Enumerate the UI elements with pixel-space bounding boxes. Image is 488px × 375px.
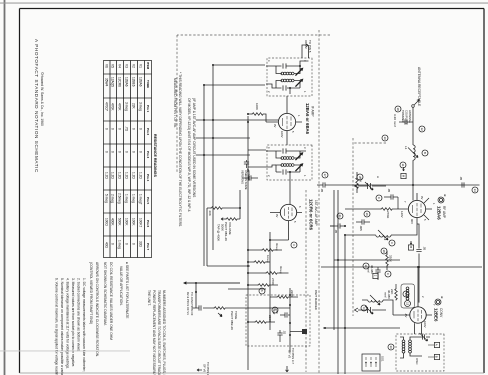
svg-text:100K: 100K [125,218,129,226]
svg-text:3: 3 [303,147,307,149]
svg-text:9: 9 [386,273,390,275]
label V3 [305,103,315,135]
svg-text:NOT SHOWN ON SCHEMATIC DIA: NOT SHOWN ON SCHEMATIC DIAGRAM. [103,262,107,326]
svg-text:TUBE: TUBE [146,80,150,88]
resistor R3 AVC [356,172,363,193]
svg-text:12BE6: 12BE6 [132,77,136,87]
svg-text:L2: L2 [383,237,387,241]
svg-text:(IF AMP & 1ST AVC-AF AMP CIRCU: (IF AMP & 1ST AVC-AF AMP CIRCUIT USED IN… [192,98,196,198]
svg-text:5: 5 [291,131,295,133]
volume control loop wires [207,190,240,266]
IF transformer T1 dashed box [266,45,312,96]
svg-text:(CONTROL VIEWED FROM SHAFT: (CONTROL VIEWED FROM SHAFT END) [89,262,93,324]
ref circle B [422,150,428,156]
svg-text:35W4: 35W4 [104,78,108,87]
svg-text:220K: 220K [290,290,294,297]
svg-text:1: 1 [303,91,307,93]
resistance readings table [104,61,158,258]
scan edge artifacts [4,0,6,375]
svg-text:100V: 100V [280,131,284,138]
svg-text:220: 220 [275,309,279,314]
svg-text:V1: V1 [139,64,143,68]
svg-text:40Ω: 40Ω [104,242,108,249]
svg-text:Pin 5: Pin 5 [146,197,150,205]
T2 secondary cap loop [276,165,300,175]
svg-text:0V: 0V [275,214,279,218]
svg-text:12BE6: 12BE6 [434,308,439,322]
circled refs det area [291,242,297,248]
svg-text:NUMBERS ASSIGNED TO COILS, SWI: NUMBERS ASSIGNED TO COILS, SWITCHES, PLU… [162,290,166,375]
svg-text:.005: .005 [359,225,363,231]
svg-text:100Ω: 100Ω [104,218,108,226]
svg-text:B: B [409,246,413,248]
svg-text:2 meg: 2 meg [111,194,115,203]
AF takeoff wiring [184,282,240,308]
solder pad [302,329,307,334]
right text column: numbers-assigned paragraph [147,290,166,375]
svg-text:⊕: ⊕ [443,194,447,197]
svg-text:.7Ω: .7Ω [125,126,129,132]
terminal B [434,354,439,359]
svg-text:2: 2 [421,296,425,298]
svg-text:11: 11 [401,164,405,167]
svg-text:SO1: SO1 [381,356,385,362]
svg-text:3meg: 3meg [275,243,279,251]
T2 bottom leads long [196,138,266,167]
svg-text:V3: V3 [125,64,129,68]
svg-text:PHOT #B2-49: PHOT #B2-49 [230,311,234,330]
svg-text:5 meg: 5 meg [104,194,108,203]
svg-text:270Ω: 270Ω [386,211,390,219]
svg-text:13: 13 [404,293,408,297]
to junction note [186,292,194,316]
svg-text:6: 6 [260,290,264,292]
svg-text:Pin 3: Pin 3 [146,151,150,159]
svg-text:0: 0 [132,128,136,130]
svg-text:OF V6: OF V6 [202,364,206,373]
heater rail wire [334,259,400,261]
resistor R9 [277,296,289,299]
numbered measurement notes [55,278,87,375]
power take-off module [362,354,385,371]
svg-text:1 meg†: 1 meg† [139,194,143,205]
tube V2 CONV 12BE6 [393,295,436,334]
svg-text:Pin 4: Pin 4 [146,174,150,182]
svg-text:500K: 500K [118,218,122,226]
svg-text:33Ω: 33Ω [139,241,143,248]
svg-text:0: 0 [139,151,143,153]
osc feedback coil in can [401,284,415,308]
svg-text:220K: 220K [268,315,272,322]
svg-text:.05: .05 [459,176,463,181]
svg-text:0: 0 [104,128,108,130]
svg-text:1: 1 [432,203,436,205]
V3 cathode resistor 100K [248,103,266,122]
misc circled refs top section [382,135,388,141]
AF network dashed sub-box [246,288,310,352]
svg-text:0: 0 [118,128,122,130]
resistor R8 [258,284,270,287]
svg-text:L1: L1 [404,146,408,150]
svg-text:14: 14 [473,189,477,193]
wire coil to RF grid [412,160,414,200]
osc grid capacitor [367,265,381,280]
coil L2 RF plate (slug tuned) [345,224,417,241]
svg-text:140V: 140V [400,211,404,218]
svg-text:6. Volume control at maximum,: 6. Volume control at maximum, no signal … [55,278,59,375]
svg-text:TAP @ 400K: TAP @ 400K [217,224,221,241]
svg-text:M: M [401,175,405,178]
svg-text:1 meg: 1 meg [125,194,129,203]
svg-text:500K: 500K [220,224,224,231]
svg-text:5: 5 [293,221,297,223]
svg-text:0: 0 [125,243,129,245]
svg-text:22K: 22K [132,103,136,110]
resistor R6 [254,261,266,264]
svg-text:B: B [435,356,439,358]
svg-text:PHOT #B1-49: PHOT #B1-49 [224,222,228,241]
svg-text:10: 10 [383,137,387,141]
svg-text:OSC: OSC [415,358,419,365]
svg-text:3 meg: 3 meg [125,102,129,111]
svg-text:4: 4 [292,244,296,246]
svg-text:CONV: CONV [439,308,443,318]
AVC bus (long vertical down left) [196,119,278,121]
coupling capacitor C9 [277,330,286,342]
label V2 [434,296,445,322]
svg-text:100K: 100K [132,218,136,226]
T1 primary winding [281,72,294,75]
label V4 [309,199,319,231]
cap near tuning section [356,219,370,231]
tube V4 DET-AVC-AF [270,204,302,240]
ref near top of AVC bus [472,187,478,193]
svg-text:13: 13 [405,302,409,306]
tuning gang dashed mechanical link [352,138,354,316]
svg-text:100K†: 100K† [139,218,143,227]
svg-text:A PHOTOFACT STANDARD NOTATI: A PHOTOFACT STANDARD NOTATION SCHEMATIC [34,39,39,173]
svg-text:3-30 mmf: 3-30 mmf [393,114,397,127]
B+ bus wire (vertical) [321,266,482,268]
svg-text:2: 2 [267,175,271,177]
svg-text:0: 0 [132,151,136,153]
IF transformer T2 dashed box [266,145,312,180]
svg-text:0: 0 [125,151,129,153]
connection tag B [408,241,413,250]
svg-text:7: 7 [403,201,407,203]
T2 secondary slug arrow [295,163,303,171]
svg-text:MEASURED FROM PIN 7 OF V6.: MEASURED FROM PIN 7 OF V6. [173,78,177,128]
see parts list note [119,262,129,319]
svg-text:3 meg: 3 meg [139,102,143,111]
svg-text:-8V: -8V [404,313,408,317]
svg-text:17: 17 [323,174,327,178]
T2 primary cap loop [276,148,300,158]
svg-text:.05: .05 [387,188,391,193]
svg-text:.05: .05 [334,229,338,234]
T1 secondary slug arrow [295,79,303,87]
ref circle 17 [322,172,328,178]
audio line down-left [204,65,265,266]
svg-text:270K: 270K [271,278,275,285]
T1 primary slug arrow [295,68,303,76]
svg-text:Pin 7: Pin 7 [146,243,150,251]
dc coil resistance note [103,262,113,340]
svg-text:VALUE OR APPLICATION.: VALUE OR APPLICATION. [119,266,123,306]
T1 secondary winding [281,79,294,82]
coil L1 antenna (slug tuned) [404,145,418,160]
svg-text:⊕: ⊕ [440,296,444,299]
svg-text:0: 0 [111,151,115,153]
svg-text:TRANSFORMERS ARE TO FACILITATE: TRANSFORMERS ARE TO FACILITATE CIRCUIT T… [157,290,161,375]
svg-text:6: 6 [298,206,302,208]
node junction on grid bus [412,184,414,186]
AVC bus bypass capacitor [317,182,330,192]
resistor 330K conv screen [386,251,393,270]
svg-text:45K: 45K [359,177,363,182]
osc coil winding 2 [402,340,405,353]
svg-text:20K: 20K [208,211,212,216]
svg-text:RESISTANCE READINGS: RESISTANCE READINGS [153,134,157,177]
ref circle 12 [419,126,425,132]
svg-text:12CR6: 12CR6 [118,77,122,87]
cathode resistor R2 [345,208,398,219]
svg-text:12BA6: 12BA6 [139,77,143,87]
capacitor C3 coupling [416,250,421,252]
svg-text:470K: 470K [111,103,115,111]
svg-text:V2: V2 [132,64,136,68]
T2 leads [266,151,306,180]
svg-text:12AQ5: 12AQ5 [111,77,115,87]
to pins text [288,348,295,364]
svg-text:220MMF: 220MMF [247,170,251,181]
svg-text:TO PINS 1-7: TO PINS 1-7 [206,362,210,375]
svg-text:12BA6 or 6BA6: 12BA6 or 6BA6 [305,103,310,135]
svg-text:4: 4 [267,60,271,62]
svg-text:1.2Ω: 1.2Ω [118,172,122,179]
capacitor 220mmf [272,309,290,318]
svg-text:12BA6: 12BA6 [125,77,129,87]
osc coil winding 1 [409,340,412,353]
svg-text:THE UNIT.: THE UNIT. [147,290,151,306]
svg-text:.02: .02 [283,330,287,335]
svg-text:RF AMP: RF AMP [442,206,446,218]
svg-text:ITEM: ITEM [146,62,150,70]
heater bridge capacitor [330,223,345,233]
connection tag M1 [401,167,406,179]
AVC bus wire (vertical) [330,184,480,186]
detector load ladder [270,232,289,330]
T2 primary winding [281,157,294,160]
svg-text:Pin 1: Pin 1 [146,105,150,113]
tone network [192,305,290,330]
svg-text:Pin 2: Pin 2 [146,128,150,136]
svg-text:400K: 400K [111,218,115,226]
label input IF [304,40,312,53]
to pins of V6 note [202,362,210,375]
PCB dashed outline [318,30,320,374]
part marked note [314,290,318,310]
svg-text:90V: 90V [410,219,414,224]
oscillator transformer dashed box [396,333,444,371]
svg-text:18: 18 [382,250,386,254]
bypass capacitor C2 [384,188,398,209]
svg-text:0: 0 [118,151,122,153]
svg-text:C: C [362,307,366,309]
svg-text:4. Battery voltage maintained: 4. Battery voltage maintained at 117 vol… [66,278,70,369]
svg-text:IF AMP: IF AMP [311,106,315,116]
svg-text:0V: 0V [273,124,277,128]
resistor R13 20K [211,207,223,210]
cap C8 [242,168,258,181]
svg-text:.05: .05 [423,246,427,251]
svg-text:1ST AVC-AF AMP: 1ST AVC-AF AMP [314,200,318,226]
svg-text:5: 5 [423,219,427,221]
svg-text:2.5meg: 2.5meg [118,193,122,204]
svg-text:DC COIL RESISTANCE VALUES: DC COIL RESISTANCE VALUES UNDER ONE OHM [109,262,113,340]
svg-text:1. DC voltage measurements ta: 1. DC voltage measurements taken with va… [82,278,86,372]
note above table [173,72,196,227]
svg-text:22K: 22K [390,289,394,294]
svg-text:1.2Ω: 1.2Ω [132,172,136,179]
svg-text:A: A [376,176,380,178]
svg-text:0: 0 [139,128,143,130]
svg-text:A: A [435,344,439,346]
svg-text:* THIS READING WILL VARY DEPEN: * THIS READING WILL VARY DEPENDING UPON … [178,72,182,227]
variable capacitor D (osc tuning) [355,306,387,314]
heater bus wires (3 horizontal) [334,190,345,374]
svg-text:0: 0 [132,243,136,245]
terminal A [434,342,439,347]
svg-text:● SEE PARTS LIST FOR ALTER: ● SEE PARTS LIST FOR ALTERNATE [125,262,129,319]
svg-text:12: 12 [420,128,424,132]
wires volume to tone [207,266,266,289]
B- bus horizontal [247,116,249,370]
wire antenna to RF grid [412,107,414,145]
grid capacitor on AVC bus top [459,176,464,188]
svg-text:2. Socket connections are sho: 2. Socket connections are shown as botto… [77,278,81,352]
svg-text:VOLUME: VOLUME [228,222,232,235]
svg-text:100V: 100V [423,321,427,328]
svg-text:330K: 330K [389,255,393,262]
svg-text:0: 0 [104,151,108,153]
svg-text:TO PIN 5: TO PIN 5 [308,40,312,53]
svg-text:1 meg: 1 meg [118,240,122,249]
svg-text:0V: 0V [420,196,424,200]
svg-text:18: 18 [396,108,400,112]
T1 primary cap loop [276,63,300,73]
variable capacitor A (tuning) [355,176,387,190]
svg-text:R2 & PIN 9 OF V1: R2 & PIN 9 OF V1 [186,292,190,315]
svg-text:B: B [423,152,427,154]
svg-text:0: 0 [111,128,115,130]
svg-text:21: 21 [338,215,342,219]
capacitor C1 ant trimmer [393,110,413,127]
label V1 [437,194,448,220]
svg-text:1: 1 [297,115,301,117]
svg-text:.05: .05 [320,188,324,193]
svg-text:TO JUNCTION OF: TO JUNCTION OF [190,292,194,316]
svg-text:mmf: mmf [384,292,388,298]
T1 leads [266,45,309,94]
T2 to V4 wire [289,180,291,204]
svg-text:1: 1 [303,175,307,177]
T1 secondary cap loop [276,81,300,91]
svg-text:1.2Ω: 1.2Ω [125,172,129,179]
svg-text:9: 9 [377,197,381,199]
plate wire V1 to V2 [417,224,419,303]
svg-text:ANTENNA: ANTENNA [408,110,412,123]
svg-text:PONENT REPLACEMENT AND MAY NOT: PONENT REPLACEMENT AND MAY NOT NECESSARI… [152,290,156,375]
arrows on controls note [89,262,99,357]
svg-text:2: 2 [267,91,271,93]
svg-text:11: 11 [364,265,368,268]
tube V1 RF AMP 12BA6 [398,193,436,224]
svg-text:V5: V5 [111,64,115,68]
svg-text:1.2Ω: 1.2Ω [104,172,108,179]
svg-text:3meg: 3meg [279,266,283,274]
svg-text:7: 7 [432,304,436,306]
T2 primary slug arrow [295,152,303,160]
svg-text:V4: V4 [118,64,122,68]
svg-text:OF MODEL VP-1213) UNIT IS 6 OF: OF MODEL VP-1213) UNIT IS 6 OF MODELS WP… [187,98,191,212]
svg-text:ARROWS ON CONTROLS INDICATE: ARROWS ON CONTROLS INDICATE CLOCKWISE RO… [95,262,99,357]
svg-text:12CR6 or 6CR6: 12CR6 or 6CR6 [309,199,314,231]
svg-text:2: 2 [373,275,377,277]
svg-text:©Howard W. Sams & Co., Inc. 19: ©Howard W. Sams & Co., Inc. 1960 [40,72,44,126]
svg-text:4: 4 [267,147,271,149]
svg-text:16: 16 [365,213,369,217]
svg-text:PART MARKED: PART MARKED [314,290,318,310]
svg-text:100K: 100K [255,103,259,110]
B+ feed wire [323,327,400,329]
resistor R5 [262,249,274,252]
T1 to V3 grid wire [286,96,288,113]
T2 secondary winding [281,164,294,167]
svg-text:470K: 470K [118,103,122,111]
footer credit [34,39,44,173]
svg-text:OF V5: OF V5 [288,350,292,359]
volume control R12 [217,218,240,242]
resistor R10 [255,321,267,324]
wire V2 grid to bus [417,267,419,295]
svg-text:C: C [390,242,394,244]
svg-text:TONE: TONE [234,311,238,319]
resistor 22K osc grid [390,284,397,300]
svg-text:1meg: 1meg [266,255,270,263]
svg-text:1.2Ω: 1.2Ω [139,172,143,179]
svg-text:3. Measured values are from s: 3. Measured values are from socket pin t… [71,278,75,367]
svg-text:20: 20 [389,346,393,350]
tube V3 IF AMP [266,113,302,145]
antenna receptacle J1 [412,67,421,107]
svg-text:1.2Ω: 1.2Ω [111,172,115,179]
svg-text:V6: V6 [104,64,108,68]
resistor R7 [266,272,278,275]
capacitor C10 (alt version) [241,160,251,190]
det plate wire [289,288,291,352]
svg-text:5. Nominal tolerance on compo: 5. Nominal tolerance on component values… [60,278,64,375]
svg-text:1 meg: 1 meg [132,194,136,203]
svg-text:12BA6: 12BA6 [437,206,442,220]
svg-text:Pin 6: Pin 6 [146,220,150,228]
svg-text:0: 0 [111,243,115,245]
svg-text:470Ω*: 470Ω* [104,102,108,112]
osc trimmer cap [422,334,430,339]
osc coil L3 (slug tuned, vertical) [362,290,393,315]
ref C1 circle [395,106,401,112]
